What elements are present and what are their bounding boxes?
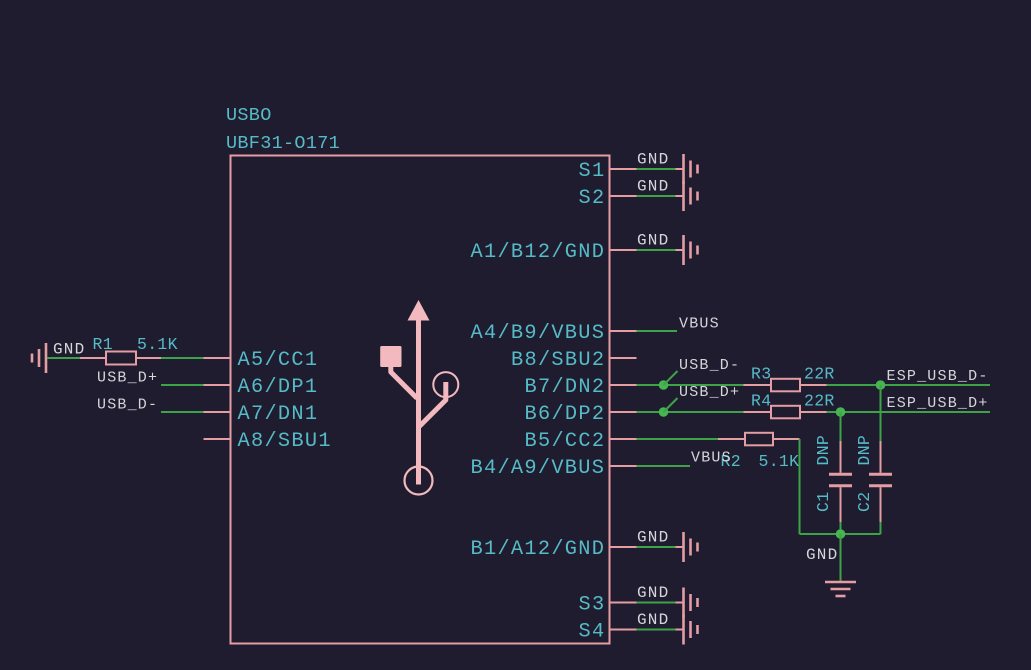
svg-text:USBO: USBO <box>226 105 272 126</box>
pin S1 <box>579 160 637 183</box>
wire USB_D+ to A6/DP1 <box>161 384 204 386</box>
svg-text:USB_D-: USB_D- <box>97 397 158 414</box>
svg-text:B7/DN2: B7/DN2 <box>525 376 606 399</box>
wire diagonal to USB_D- label <box>664 371 678 385</box>
svg-text:A5/CC1: A5/CC1 <box>238 349 319 372</box>
ground symbol left <box>32 341 85 374</box>
svg-text:ESP_USB_D-: ESP_USB_D- <box>887 368 989 385</box>
svg-text:A4/B9/VBUS: A4/B9/VBUS <box>471 322 606 345</box>
pin B8/SBU2 <box>511 349 637 372</box>
pin A5/CC1 <box>204 349 319 372</box>
pin B1/A12/GND <box>471 538 637 561</box>
capacitor C1 <box>829 441 852 522</box>
svg-text:GND: GND <box>53 341 85 359</box>
junction on B7/DN2 at C2 tap <box>876 380 886 390</box>
wire junction down to ground <box>840 534 842 581</box>
wire C2 to bottom rail <box>880 522 882 534</box>
USB logo graphic <box>380 300 458 495</box>
pin B6/DP2 <box>525 403 637 426</box>
wire S3 to GND <box>637 602 676 604</box>
svg-text:B5/CC2: B5/CC2 <box>525 430 606 453</box>
ground symbol GND S1 <box>637 151 698 185</box>
ground symbol GND B1 <box>637 529 698 563</box>
svg-text:B6/DP2: B6/DP2 <box>525 403 606 426</box>
wire B5/CC2 to R2 <box>637 438 719 440</box>
resistor R3 <box>744 379 827 392</box>
junction on B7/DN2 at USB_D- tap <box>659 380 669 390</box>
svg-text:R3: R3 <box>751 365 771 384</box>
svg-text:USB_D+: USB_D+ <box>679 384 740 401</box>
svg-text:GND: GND <box>637 151 669 169</box>
wire bottom horizontal to C2 <box>800 533 881 535</box>
svg-text:5.1K: 5.1K <box>137 335 178 354</box>
svg-text:GND: GND <box>637 232 669 250</box>
wire B7/DN2 to R3 <box>637 384 744 386</box>
wire B6/DP2 to R4 <box>637 411 744 413</box>
svg-text:A7/DN1: A7/DN1 <box>238 403 319 426</box>
svg-text:B4/A9/VBUS: B4/A9/VBUS <box>471 457 606 480</box>
wire B7 junction down to C2 <box>880 385 882 441</box>
svg-text:DNP: DNP <box>814 435 833 466</box>
pin A8/SBU1 <box>204 430 332 453</box>
svg-text:GND: GND <box>637 178 669 196</box>
pin A7/DN1 <box>204 403 319 426</box>
wire A4/B9/VBUS to VBUS label <box>637 330 678 332</box>
svg-text:S2: S2 <box>579 187 606 210</box>
pin S3 <box>579 594 637 617</box>
svg-text:R1: R1 <box>93 335 113 354</box>
svg-text:ESP_USB_D+: ESP_USB_D+ <box>887 395 989 412</box>
connector USB0 body outline <box>231 156 610 644</box>
pin B5/CC2 <box>525 430 637 453</box>
svg-text:5.1K: 5.1K <box>759 452 800 471</box>
pin A1/B12/GND <box>471 241 637 264</box>
pin S2 <box>579 187 637 210</box>
svg-text:A6/DP1: A6/DP1 <box>238 376 319 399</box>
wire S1 to GND <box>637 168 676 170</box>
junction on B6/DP2 at C1 tap <box>836 407 846 417</box>
svg-text:UBF31-O171: UBF31-O171 <box>226 133 340 154</box>
wire R3 to ESP_USB_D- <box>827 384 991 386</box>
svg-text:B1/A12/GND: B1/A12/GND <box>471 538 606 561</box>
ground symbol GND S4 <box>637 611 698 645</box>
svg-text:GND: GND <box>637 611 669 629</box>
svg-text:22R: 22R <box>804 365 835 384</box>
resistor R4 <box>744 406 827 419</box>
svg-text:S1: S1 <box>579 160 606 183</box>
wire B6 junction down to C1 <box>840 412 842 441</box>
svg-text:USB_D-: USB_D- <box>679 357 740 374</box>
svg-text:S3: S3 <box>579 594 606 617</box>
svg-text:B8/SBU2: B8/SBU2 <box>511 349 605 372</box>
svg-text:GND: GND <box>806 546 838 564</box>
wire S2 to GND <box>637 195 676 197</box>
svg-text:22R: 22R <box>804 392 835 411</box>
svg-text:GND: GND <box>637 584 669 602</box>
capacitor C2 <box>869 441 892 522</box>
svg-text:A8/SBU1: A8/SBU1 <box>238 430 332 453</box>
svg-text:DNP: DNP <box>855 435 874 466</box>
svg-text:S4: S4 <box>579 621 606 644</box>
svg-text:A1/B12/GND: A1/B12/GND <box>471 241 606 264</box>
junction on B6/DP2 at USB_D+ tap <box>659 407 669 417</box>
wire diagonal to USB_D+ label <box>664 398 678 412</box>
pin A6/DP1 <box>204 376 319 399</box>
wire S4 to GND <box>637 629 676 631</box>
wire R1 to A5/CC1 <box>161 357 204 359</box>
ground symbol bottom <box>806 546 856 596</box>
svg-text:VBUS: VBUS <box>679 316 720 333</box>
wire B1/A12/GND to GND <box>637 546 676 548</box>
resistor R2 <box>718 433 800 446</box>
wire R4 to ESP_USB_D+ <box>827 411 991 413</box>
pin S4 <box>579 621 637 644</box>
wire GND to R1 <box>47 357 80 359</box>
pin A4/B9/VBUS <box>471 322 637 345</box>
wire A1/B12/GND to GND <box>637 249 676 251</box>
ground symbol GND S2 <box>637 178 698 212</box>
svg-text:R4: R4 <box>751 392 771 411</box>
svg-text:C1: C1 <box>814 492 833 512</box>
svg-text:VBUS: VBUS <box>691 450 732 467</box>
wire C1 to bottom rail <box>840 522 842 534</box>
pin B4/A9/VBUS <box>471 457 637 480</box>
svg-text:GND: GND <box>637 529 669 547</box>
pin B7/DN2 <box>525 376 637 399</box>
resistor R1 <box>80 352 161 365</box>
svg-text:C2: C2 <box>855 492 874 512</box>
junction bottom rail at C1 <box>836 529 846 539</box>
svg-text:USB_D+: USB_D+ <box>97 370 158 387</box>
wire B4/A9/VBUS to VBUS label <box>637 465 691 467</box>
wire USB_D- to A7/DN1 <box>161 411 204 413</box>
ground symbol GND S3 <box>637 584 698 618</box>
wire R2 down <box>799 439 801 534</box>
ground symbol GND A1 <box>637 232 698 266</box>
